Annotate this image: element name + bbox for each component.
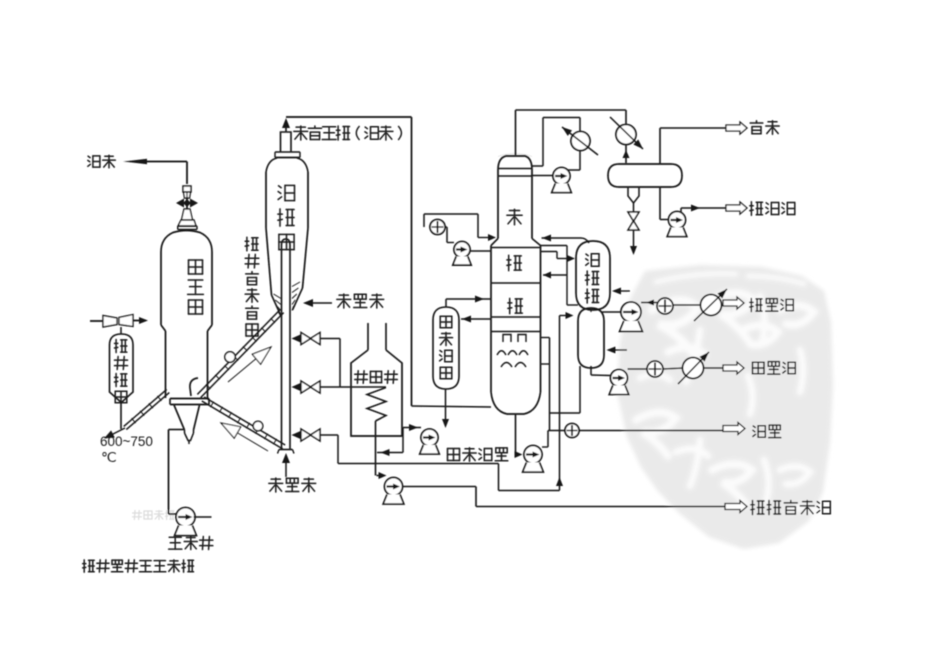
svg-text:℃: ℃: [101, 449, 117, 465]
svg-text:600~750: 600~750: [100, 434, 153, 449]
